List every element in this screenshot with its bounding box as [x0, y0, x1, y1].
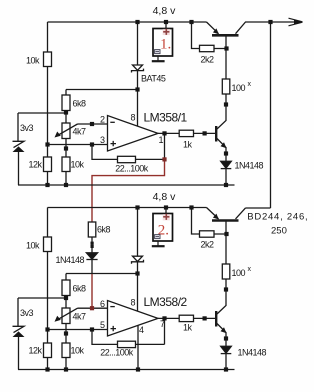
op-amp U1 minus sign [110, 121, 115, 123]
zener diode 3v3 section 1 [13, 141, 25, 147]
zener diode 3v3 section 2 [13, 326, 25, 332]
svg-text:12k: 12k [28, 346, 42, 356]
zener 3v3 triangle section 1 [13, 146, 25, 152]
transistor PNP section 2 base bar [212, 219, 239, 222]
svg-text:5: 5 [100, 320, 105, 330]
arrowhead NPN emitter section 2 [221, 327, 227, 333]
junction dot red pin 6 section 2 [90, 306, 94, 310]
svg-text:12k: 12k [28, 160, 42, 170]
svg-text:2: 2 [100, 115, 105, 125]
svg-text:1: 1 [159, 135, 164, 145]
battery 2 minus terminal [155, 235, 160, 239]
resistor 10k upper left section 1 [44, 52, 52, 67]
svg-text:10k: 10k [26, 55, 40, 65]
resistor 10k upper left section 2 [44, 237, 52, 252]
wire 6k8 middle to diode section 2 [91, 237, 93, 253]
svg-text:6k8: 6k8 [73, 284, 87, 294]
svg-text:8: 8 [130, 112, 135, 122]
svg-text:LM358/2: LM358/2 [144, 295, 188, 309]
resistor 2k2 section 2 [200, 231, 215, 237]
wire 6k8 column section 2 [65, 274, 67, 370]
wire left branch vertical section 2 [47, 208, 49, 330]
wire feedback left L section 2 [92, 330, 118, 345]
wire pin6 row section 2 [78, 307, 108, 309]
resistor 2k2 section 1 [200, 45, 215, 51]
svg-text:1N4148: 1N4148 [55, 255, 84, 265]
svg-text:3v3: 3v3 [20, 123, 34, 133]
resistor 1k section 2 [179, 315, 193, 321]
svg-text:10k: 10k [71, 346, 85, 356]
joint dots middle branch section 2 [91, 242, 94, 245]
battery 2 plus terminal [163, 214, 170, 220]
svg-text:1.: 1. [160, 37, 171, 53]
wire op-amp 2 pin 4 to ground rail [137, 326, 139, 370]
transistor PNP section 1 base bar [212, 34, 239, 37]
battery 1 plus terminal [163, 29, 170, 35]
junction dots section 2 [45, 205, 228, 371]
wire pin2 row section 1 [78, 123, 108, 125]
wire node to 6k8 top section 2 [66, 273, 138, 275]
potentiometer 4k7 wiper arrow section 2 [58, 308, 78, 320]
resistor 6k8 section 1 [62, 95, 70, 111]
wire red link output1 to stage 2 [92, 159, 165, 222]
battery 1 minus terminal [155, 50, 160, 54]
wire ground rail section 2 [18, 369, 235, 371]
op-amp U1 plus sign [111, 141, 117, 146]
wire feedback right section 1 [136, 158, 165, 160]
schottky diode BAT45 section 1 [133, 65, 143, 70]
resistor 12k section 1 [44, 157, 52, 172]
wire feedback right section 2 [136, 343, 165, 345]
transistor NPN section 1 emitter [217, 139, 226, 162]
ground battery 2 [152, 241, 165, 246]
transistor PNP section 2 collector [236, 208, 246, 219]
wire battery 1 to rail [165, 22, 167, 29]
arrowhead 4k7 wiper section 2 [55, 316, 61, 322]
schottky diode BAT45 section 2 [133, 256, 143, 261]
svg-text:4: 4 [139, 325, 144, 335]
op-amp U2 plus sign [111, 326, 117, 331]
svg-text:x: x [248, 266, 252, 273]
transistor NPN section 2 emitter [217, 324, 226, 347]
arrowhead NPN emitter section 1 [221, 142, 227, 148]
arrowhead PNP emitter section 2 [213, 214, 219, 220]
resistor 22...100k section 1 [118, 156, 136, 162]
wire output row section 2 [158, 317, 216, 319]
svg-text:100: 100 [232, 268, 246, 278]
svg-text:10k: 10k [71, 160, 85, 170]
arrowhead 4k7 wiper section 1 [55, 132, 61, 138]
wire node to 6k8 top section 1 [66, 89, 138, 91]
wire 4.8V rail section 2 [48, 207, 207, 209]
svg-text:6: 6 [100, 299, 105, 309]
wire 4.8V rail section 1 [48, 21, 207, 23]
svg-text:4,8 v: 4,8 v [153, 191, 177, 203]
wire feedback left L section 1 [92, 145, 118, 160]
resistor 1k section 1 [179, 130, 193, 136]
svg-text:3v3: 3v3 [20, 308, 34, 318]
op-amp U2 LM358/2 triangle [108, 301, 159, 337]
wire pin5 row section 2 [48, 329, 108, 331]
wire BAT45 column section 1 [137, 22, 139, 126]
battery 2 box [153, 214, 173, 242]
potentiometer 4k7 section 2 [62, 308, 70, 324]
svg-text:4k7: 4k7 [73, 312, 87, 322]
svg-text:x: x [248, 81, 252, 88]
wire left branch vertical section 1 [47, 22, 49, 145]
wire collector drop right side [246, 22, 271, 208]
svg-text:2k2: 2k2 [201, 55, 215, 65]
wire base column section 1 [225, 35, 227, 79]
svg-text:22...100k: 22...100k [115, 163, 149, 173]
wire BAT45 column section 2 [137, 208, 139, 312]
junction dots section 1 [45, 20, 272, 187]
transistor NPN section 1 base bar [215, 126, 217, 142]
diode 1N4148 middle branch section 2 [86, 253, 97, 259]
wire output down to feedback section 1 [164, 133, 166, 159]
diode 1N4148 section 1 [221, 161, 232, 168]
wire 12k branch section 1 [47, 145, 49, 186]
wire base column section 2 [225, 221, 227, 265]
resistor 6k8 left section 2 [62, 280, 70, 296]
op-amp U1 LM358/1 triangle [108, 116, 159, 152]
resistor 10k middle section 2 [62, 343, 70, 358]
zener 3v3 triangle section 2 [13, 331, 25, 337]
resistor 12k section 2 [44, 343, 52, 358]
svg-text:LM358/1: LM358/1 [144, 110, 188, 124]
svg-text:10k: 10k [26, 240, 40, 250]
junction dot maroon output1/feedback [162, 157, 166, 161]
svg-text:4k7: 4k7 [73, 127, 87, 137]
potentiometer 4k7 wiper arrow section 1 [58, 124, 78, 136]
wire 12k branch section 2 [47, 330, 49, 370]
wire output row section 1 [158, 132, 216, 134]
svg-text:22...100k: 22...100k [100, 348, 134, 358]
arrowhead output top right [289, 18, 303, 26]
op-amp U2 minus sign [110, 306, 115, 308]
svg-text:BD244, 246,: BD244, 246, [247, 211, 308, 222]
wire 100x to NPN collector section 2 [217, 279, 226, 314]
wire red stage2 to pin 6 [91, 274, 93, 309]
svg-text:100: 100 [232, 83, 246, 93]
svg-text:2k2: 2k2 [201, 240, 215, 250]
diode 1N4148 right section 2 [221, 346, 232, 353]
wire battery 2 to rail [165, 208, 167, 214]
wire 2k2 elbow section 2 [192, 208, 227, 235]
wire 6k8 column section 1 [65, 90, 67, 186]
svg-text:8: 8 [130, 297, 135, 307]
svg-text:4,8 v: 4,8 v [153, 5, 177, 17]
wire 2k2 elbow section 1 [192, 22, 227, 49]
resistor 10k middle section 1 [62, 157, 70, 172]
wire 100x to NPN collector section 1 [217, 94, 226, 129]
resistor 6k8 middle branch section 2 [88, 222, 96, 237]
wire ground rail section 1 [18, 184, 235, 186]
wire output down to feedback section 2 [164, 318, 166, 344]
wire zener branch section 1 [18, 113, 66, 141]
svg-text:1N4148: 1N4148 [238, 348, 267, 358]
svg-text:3: 3 [100, 135, 105, 145]
resistor 100x section 1 [222, 79, 230, 94]
potentiometer 4k7 section 1 [62, 123, 70, 139]
svg-text:7: 7 [160, 319, 165, 329]
wire pin3 row section 1 [48, 144, 108, 146]
svg-text:6k8: 6k8 [73, 99, 87, 109]
svg-text:1k: 1k [183, 140, 193, 150]
transistor NPN section 2 base bar [215, 311, 217, 327]
svg-text:1k: 1k [183, 323, 193, 333]
wire zener branch section 2 [18, 298, 66, 326]
transistor PNP section 1 collector [236, 22, 302, 34]
svg-text:1N4148: 1N4148 [235, 161, 264, 171]
svg-text:250: 250 [271, 226, 287, 237]
resistor 22...100k section 2 [118, 341, 136, 347]
battery 1 box [153, 29, 173, 57]
transistor PNP section 1 emitter [207, 22, 219, 34]
ground battery 1 [152, 56, 165, 61]
SECTION2 [13, 208, 246, 370]
arrowhead PNP emitter section 1 [213, 28, 219, 34]
resistor 100x section 2 [222, 264, 230, 279]
transistor PNP section 2 emitter [207, 208, 219, 219]
svg-text:BAT45: BAT45 [141, 74, 166, 84]
svg-text:6k8: 6k8 [97, 225, 111, 235]
